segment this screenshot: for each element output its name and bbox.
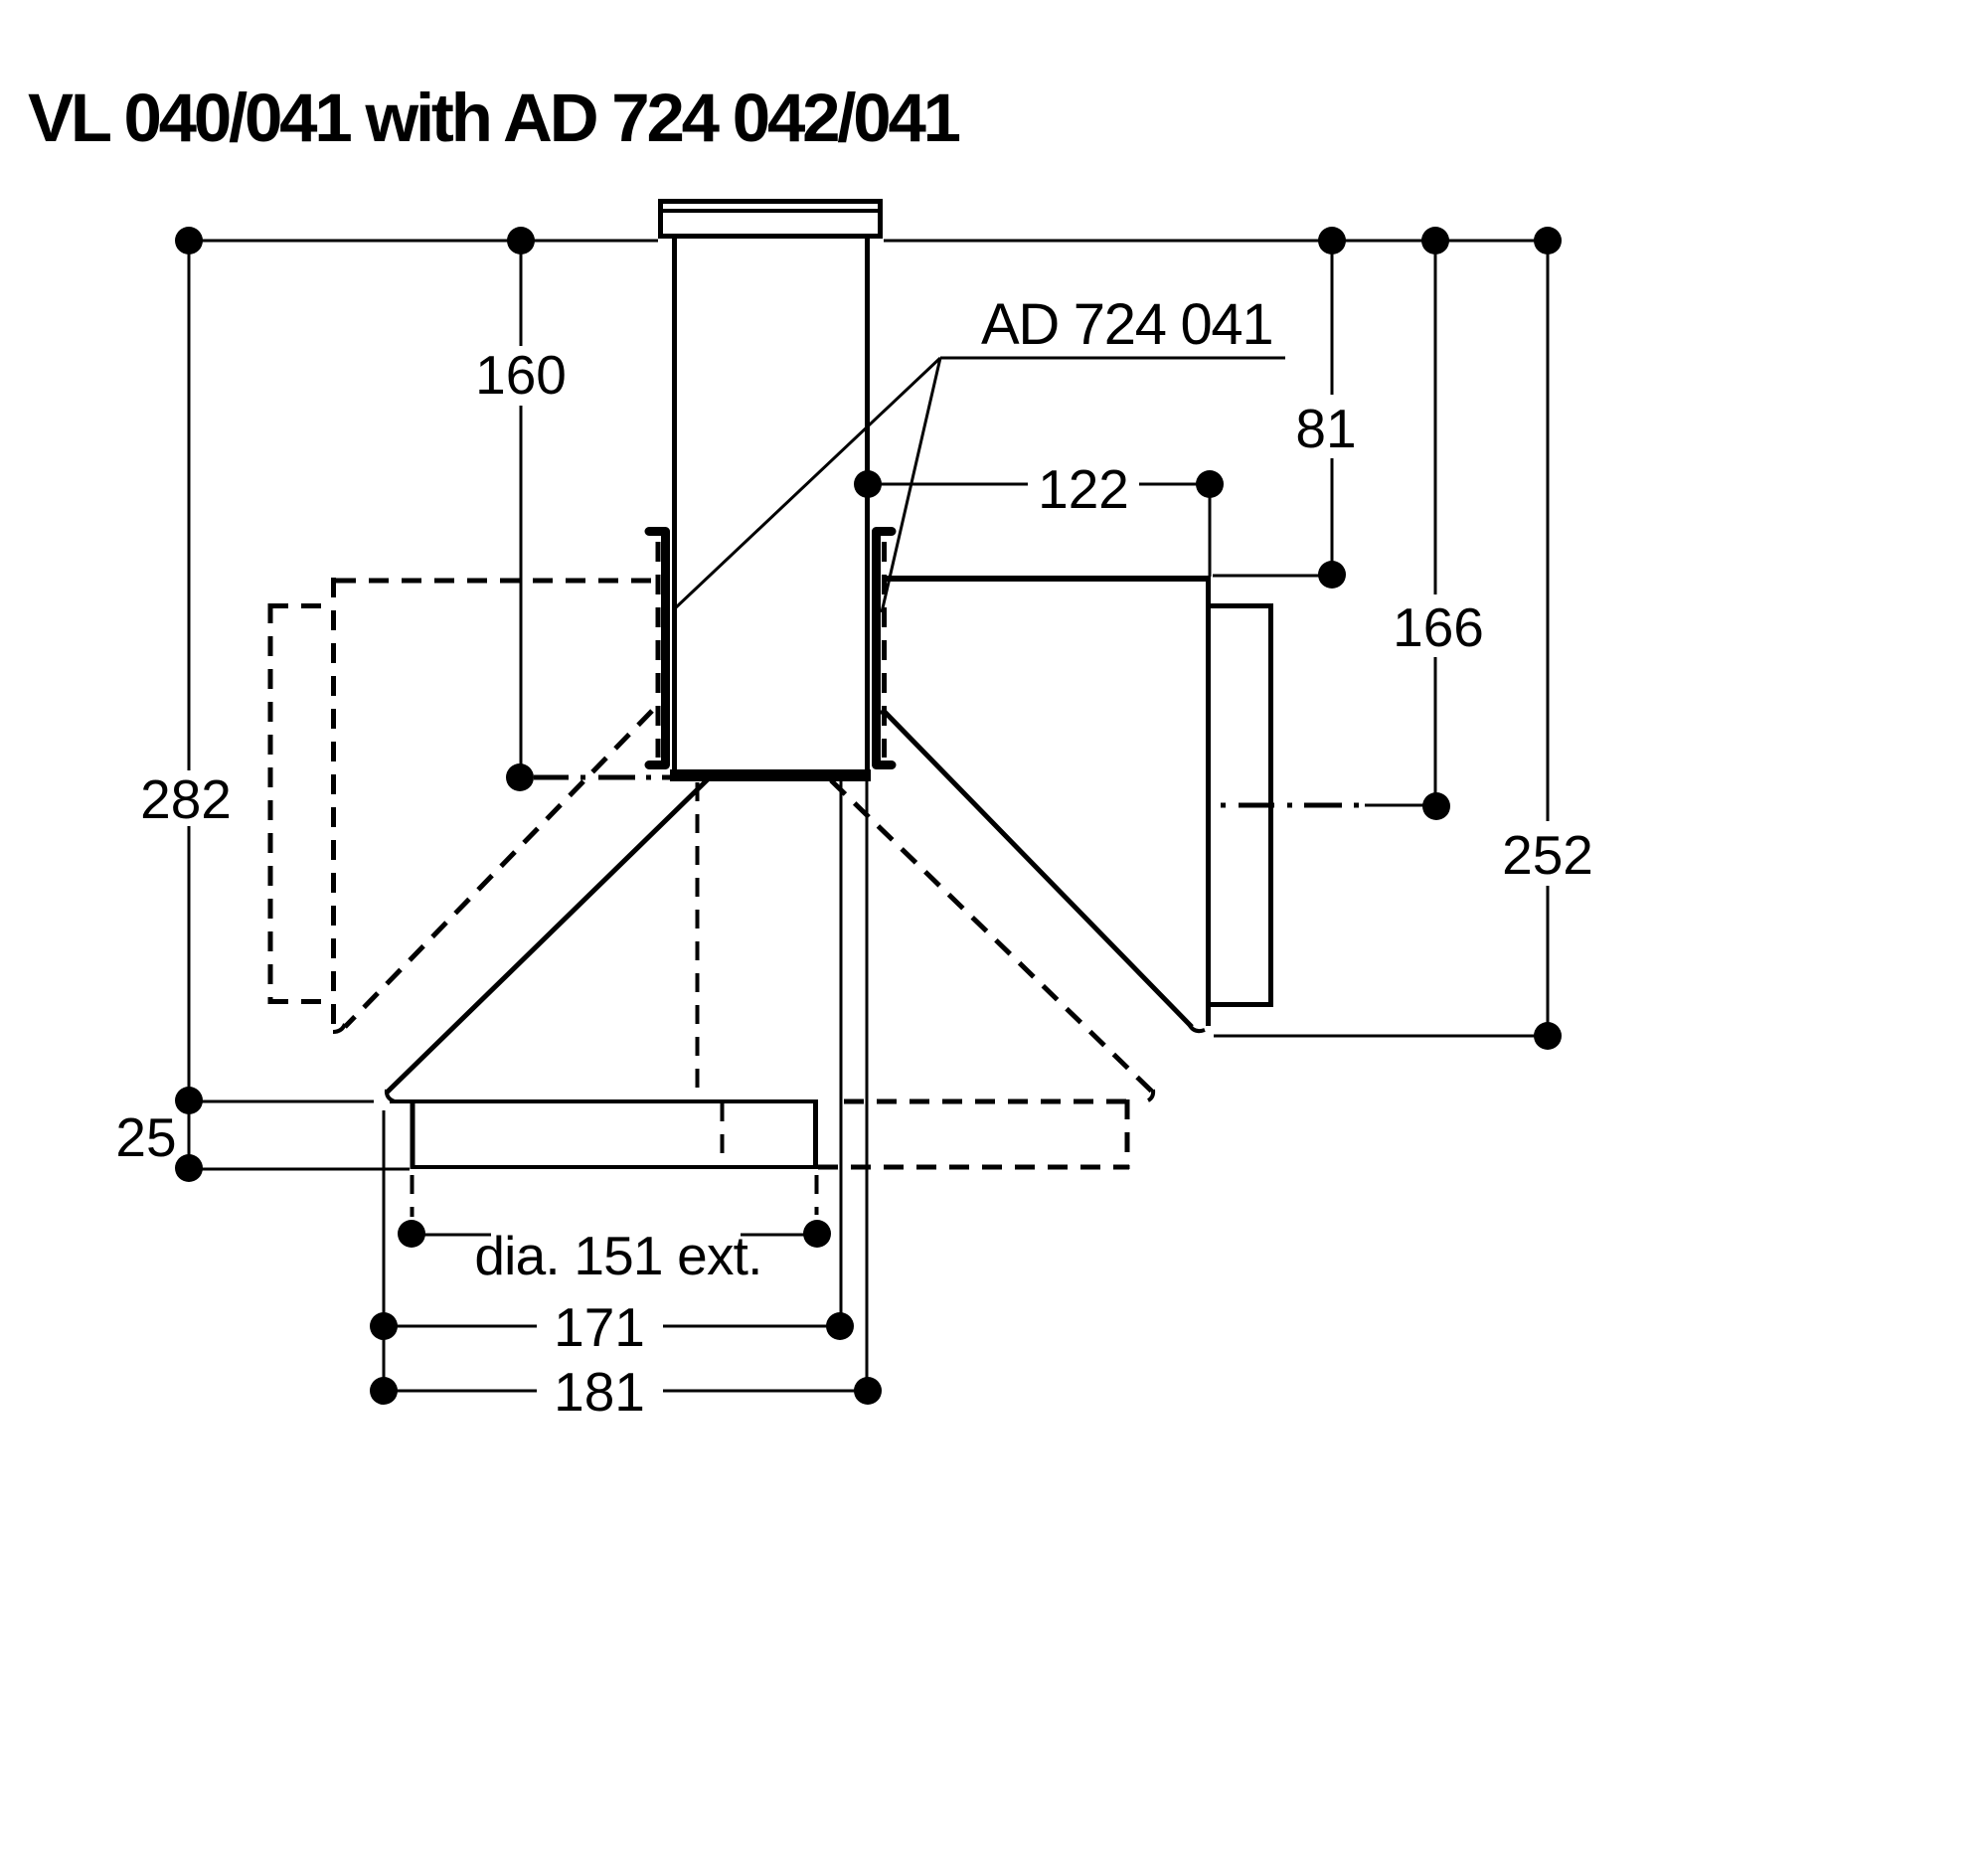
svg-text:AD 724 041: AD 724 041	[981, 292, 1272, 357]
svg-text:VL 040/041 with AD 724 042/041: VL 040/041 with AD 724 042/041	[28, 80, 960, 156]
svg-text:81: 81	[1295, 398, 1356, 459]
svg-text:dia. 151 ext.: dia. 151 ext.	[474, 1225, 761, 1286]
svg-text:166: 166	[1393, 596, 1484, 658]
svg-text:122: 122	[1038, 458, 1129, 520]
svg-text:181: 181	[554, 1361, 645, 1423]
svg-text:252: 252	[1502, 824, 1593, 886]
svg-text:25: 25	[115, 1106, 176, 1168]
svg-text:282: 282	[140, 768, 232, 830]
svg-text:160: 160	[475, 344, 567, 406]
svg-text:171: 171	[554, 1296, 645, 1358]
